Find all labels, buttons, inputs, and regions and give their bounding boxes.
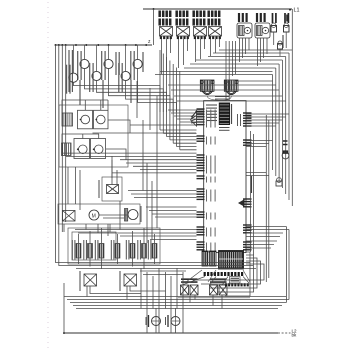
label element E5 xyxy=(126,240,129,260)
relay K2 xyxy=(177,27,190,37)
label display xyxy=(206,104,232,130)
wire center bundle 2 xyxy=(162,54,164,134)
wire SE drop 3 xyxy=(209,258,257,288)
label switch S1 xyxy=(239,13,247,22)
wire left vertical 4 xyxy=(65,45,67,222)
wire center bundle 4 xyxy=(169,61,171,140)
label left bus xyxy=(69,50,72,92)
relay K2 pins xyxy=(177,36,189,39)
wire bottom drop 3 xyxy=(152,276,154,309)
terminal block TB2 xyxy=(62,143,72,156)
wire lamp DS1 leads xyxy=(155,308,157,333)
wire SE drop 4 xyxy=(201,261,261,284)
motor B1 xyxy=(200,80,222,100)
surface switch SW3 xyxy=(133,45,142,69)
wire element E7 leads xyxy=(154,234,156,264)
pin header xyxy=(204,272,244,276)
label switch area 4 xyxy=(130,80,132,103)
wire center bundle 7 xyxy=(179,71,181,150)
connector P5 xyxy=(197,189,216,202)
wire elements feed xyxy=(75,230,197,240)
motor M1 xyxy=(89,210,99,220)
wire bottom drop 6 xyxy=(170,276,172,333)
wire SU group2 top xyxy=(62,134,99,143)
label element E1 xyxy=(72,240,75,260)
label switch area 5 xyxy=(142,52,144,72)
element E7 xyxy=(152,244,157,259)
wire right pair A xyxy=(266,115,269,282)
wire left vertical 3 xyxy=(61,45,63,232)
wire board right drop 2 xyxy=(253,134,255,255)
switch S1 xyxy=(237,23,252,38)
surface unit SU3 xyxy=(74,139,90,159)
module label box xyxy=(230,277,241,284)
label surface switch SW5 xyxy=(90,63,93,92)
wire relay K4 leads xyxy=(211,39,220,56)
label relay K6 xyxy=(58,206,60,222)
wire switch S1 leads xyxy=(240,38,250,62)
wire element E1 leads xyxy=(78,234,80,264)
surface switch SW2 xyxy=(104,45,113,69)
wire midfield vert 10 xyxy=(67,167,69,204)
relay K3 xyxy=(194,27,207,37)
wire midfield vert 9 xyxy=(111,156,113,178)
wire bottom relay base xyxy=(178,297,250,299)
wire below elements xyxy=(70,263,256,269)
label motor M2 xyxy=(140,206,142,222)
connector P7 xyxy=(197,227,216,237)
label switch S2 xyxy=(257,13,265,22)
wire board right out mid xyxy=(246,227,289,237)
wire board right drop 1 xyxy=(250,131,252,252)
switch S2 xyxy=(255,23,270,38)
enclosure elements 1 xyxy=(72,232,116,260)
wire sensor drop 1 xyxy=(225,41,227,101)
label motors xyxy=(215,97,229,100)
wire mid field 4 xyxy=(128,191,197,198)
wire midfield vert 8 xyxy=(142,120,144,191)
label board right edge xyxy=(238,114,241,126)
wire midfield vert 2 xyxy=(79,170,81,210)
svg-text:L1: L1 xyxy=(294,8,300,14)
wire harness trapezoid xyxy=(186,270,250,282)
surface switch SW6 xyxy=(121,45,130,81)
relay K4 pins xyxy=(209,36,221,39)
harness fan P1 xyxy=(191,111,197,127)
wire left supply bus xyxy=(55,39,153,46)
label board vertical 3010 xyxy=(251,176,253,193)
surface switch SW4 xyxy=(69,45,78,82)
wire switch field to right xyxy=(168,81,286,101)
wire bottom drop 1 xyxy=(140,268,142,309)
relay K1 pins xyxy=(160,36,172,39)
wire surface switch SW1 output xyxy=(85,69,164,112)
wire mid vert A xyxy=(149,88,151,130)
wire board right in 2 xyxy=(246,141,273,147)
keyboard module xyxy=(219,251,244,270)
fuse F1 xyxy=(271,23,277,32)
wire switch S2 leads xyxy=(258,38,268,66)
enclosure motor row xyxy=(58,204,140,224)
clock module xyxy=(202,251,216,266)
diode CR1 xyxy=(238,199,244,207)
wire SU group1 out xyxy=(93,120,197,133)
connector P2 xyxy=(197,136,216,145)
wire right pair B xyxy=(286,227,289,303)
wire right bundle 6 xyxy=(288,53,290,200)
right pin marks xyxy=(283,141,288,145)
terminal block TB1 xyxy=(62,113,73,126)
wire board left in 1 xyxy=(130,110,204,125)
lamp holder right xyxy=(276,178,282,186)
label relay K8 xyxy=(119,271,121,291)
wire mid comb xyxy=(62,130,197,173)
label relay K4 xyxy=(209,11,220,26)
wire relay K3 leads xyxy=(196,39,205,62)
wire right bundle 2 xyxy=(275,68,277,176)
pin header 2 xyxy=(225,283,249,286)
wire L1 top feed xyxy=(143,8,292,10)
wire sensor drop 4 xyxy=(235,41,237,74)
wire sensor drop 3 xyxy=(231,41,233,76)
connector J5 xyxy=(243,242,252,250)
node L1 xyxy=(287,8,300,22)
wire right bundle 3 xyxy=(278,64,280,182)
motor B2 xyxy=(222,80,238,100)
label right column xyxy=(282,35,284,48)
wire relay K8 out xyxy=(127,286,166,300)
wire center bundle 6 xyxy=(176,68,178,147)
wire surface switch SW3 output xyxy=(138,69,177,112)
wire element E6 leads xyxy=(143,228,145,269)
wire bottom drop 8 xyxy=(182,272,184,333)
wire relay K5 top xyxy=(112,160,117,185)
relay K10A xyxy=(210,285,218,295)
relay K7 xyxy=(84,274,97,286)
wire motor link xyxy=(99,215,128,218)
label relay K2 xyxy=(177,11,188,26)
wire center bundle 5 xyxy=(172,64,174,143)
relay K8 xyxy=(124,274,137,286)
wire surface switch SW5 output xyxy=(97,81,167,112)
wire L1 drop to bus xyxy=(153,9,155,45)
wire fuse F2 lead xyxy=(285,32,287,48)
wire bottom drop 2 xyxy=(146,272,148,333)
element E3 xyxy=(99,244,104,259)
wire midfield vert 1 xyxy=(75,167,77,204)
label fuse F1 xyxy=(273,13,276,23)
wire relay K9 leads xyxy=(190,295,195,303)
wire midfield vert 5 xyxy=(146,163,148,243)
wire center bundle 1 xyxy=(159,50,161,130)
lamp DS2 xyxy=(166,315,181,327)
label surface switch SW6 xyxy=(119,63,122,92)
element E5 xyxy=(130,244,135,259)
label surface switch SW2 xyxy=(102,51,105,80)
element E4 xyxy=(115,244,120,259)
label relay K5 xyxy=(98,180,100,198)
wire SU group2 out xyxy=(106,149,126,160)
label relay K7 xyxy=(79,271,81,291)
label switch area 1 xyxy=(79,80,81,105)
wire SE drop 2 xyxy=(217,255,254,292)
fuse F2 xyxy=(284,23,290,32)
connector P1 xyxy=(197,109,216,128)
wire bottom drop 5 xyxy=(165,272,167,309)
label relay K10 xyxy=(210,279,227,282)
wire top distribution xyxy=(155,50,292,75)
lamp DS1 xyxy=(146,315,161,327)
svg-text:bk: bk xyxy=(292,333,298,338)
wire right bundle 7 xyxy=(291,9,293,206)
oven lamp DS4 xyxy=(282,151,289,159)
wire SU group1 top xyxy=(62,100,108,113)
wire board right out low xyxy=(246,241,277,248)
wire bottom drop 4 xyxy=(158,268,160,333)
relay K9A xyxy=(181,285,189,295)
svg-text:M: M xyxy=(92,213,96,219)
wire right bundle 5 xyxy=(285,57,287,195)
wire relay K10 leads xyxy=(213,295,222,309)
connector P4 xyxy=(197,176,216,183)
label fuse F2 xyxy=(285,13,288,23)
connector J2 xyxy=(243,140,252,145)
element E2 xyxy=(88,244,93,259)
wire relay K2 leads xyxy=(179,39,188,68)
label relay K3 xyxy=(194,11,205,26)
surface switch SW1 xyxy=(80,45,89,69)
wire motor row drops xyxy=(64,224,108,236)
relay K4 xyxy=(209,27,222,37)
wire element E2 leads xyxy=(89,231,91,267)
wire element E4 leads xyxy=(117,234,119,264)
fuse F3 xyxy=(278,41,283,56)
wire left vertical turn 1 xyxy=(56,252,71,263)
connector J4 xyxy=(243,225,252,233)
wire midfield vert 6 xyxy=(151,181,153,240)
wire left bottom drop xyxy=(63,283,65,333)
surface unit SU4 xyxy=(91,139,106,159)
wire center bundle 3 xyxy=(166,57,168,137)
relay K1 xyxy=(160,27,173,37)
label surface switch SW1 xyxy=(78,51,81,80)
wire lamp DS2 leads xyxy=(175,308,177,333)
wire element E5 leads xyxy=(132,231,134,267)
wire board right in 1 xyxy=(246,114,289,126)
label relay K9 xyxy=(181,279,198,282)
wire right bundle 1 xyxy=(272,75,274,171)
wire left vertical 2 xyxy=(58,45,60,242)
node L2 xyxy=(292,329,298,338)
wire bottom drop 7 xyxy=(176,268,178,309)
relay K9B xyxy=(190,285,198,295)
element E6 xyxy=(142,244,147,259)
motor M2 xyxy=(125,209,139,222)
label surface switch SW3 xyxy=(131,51,134,80)
display DS3 xyxy=(219,103,229,125)
wire right mid pair xyxy=(246,173,269,176)
relay K3 pins xyxy=(194,36,206,39)
wire midfield vert 3 xyxy=(119,201,121,230)
wire relay K1 leads xyxy=(162,39,171,74)
relay K5 xyxy=(102,177,122,201)
wire midfield vert 7 xyxy=(156,96,158,228)
connector P6 xyxy=(197,212,216,220)
label element E2 xyxy=(84,240,87,260)
surface unit SU2 xyxy=(94,110,109,129)
connector P3 xyxy=(197,155,216,174)
surface switch SW5 xyxy=(92,45,101,81)
wire midfield vert 4 xyxy=(109,224,111,232)
connector P8 xyxy=(197,242,216,254)
label element E6 xyxy=(138,240,141,260)
connector J3 xyxy=(243,199,252,207)
label element E4 xyxy=(111,240,114,260)
wire L2 bottom feed xyxy=(63,332,291,334)
enclosure elements 2 xyxy=(68,228,160,264)
label element E3 xyxy=(95,240,98,260)
enclosure bottom relays xyxy=(182,277,249,286)
relay K6 xyxy=(63,211,76,222)
wire surface switch SW2 output xyxy=(109,69,170,112)
wire bottom link row xyxy=(140,271,186,275)
wire relay K7 out xyxy=(87,286,141,297)
wire right bundle 4 xyxy=(281,60,283,188)
label switch area 3 xyxy=(116,52,119,75)
label switch area 2 xyxy=(102,80,104,108)
wire element E3 leads xyxy=(101,228,103,269)
wire fuse F1 lead xyxy=(273,32,275,45)
surface unit SU1 xyxy=(78,110,93,129)
wire SE drop 1 xyxy=(225,252,250,296)
control board A1 outline xyxy=(204,101,246,253)
connector J1 xyxy=(243,113,252,126)
label element E7 xyxy=(148,240,151,260)
wire mid vert B xyxy=(136,81,138,118)
wire motor row out xyxy=(146,207,197,217)
relay K10B xyxy=(219,285,227,295)
wire SE drop 5 xyxy=(193,264,264,280)
wire surface switch SW6 output xyxy=(126,81,174,112)
wire left vertical turn 2 xyxy=(59,242,73,266)
wire surface switch SW4 output xyxy=(73,82,160,112)
element E1 xyxy=(76,244,81,259)
label relay K1 xyxy=(160,11,171,26)
wire left vertical 1 xyxy=(55,45,57,252)
wire bottom bus group xyxy=(64,297,289,309)
fold mark dotted line xyxy=(47,2,49,348)
label surface switch SW4 xyxy=(67,65,70,94)
enclosure surface units xyxy=(59,105,128,167)
wire sensor drop 2 xyxy=(228,41,230,101)
